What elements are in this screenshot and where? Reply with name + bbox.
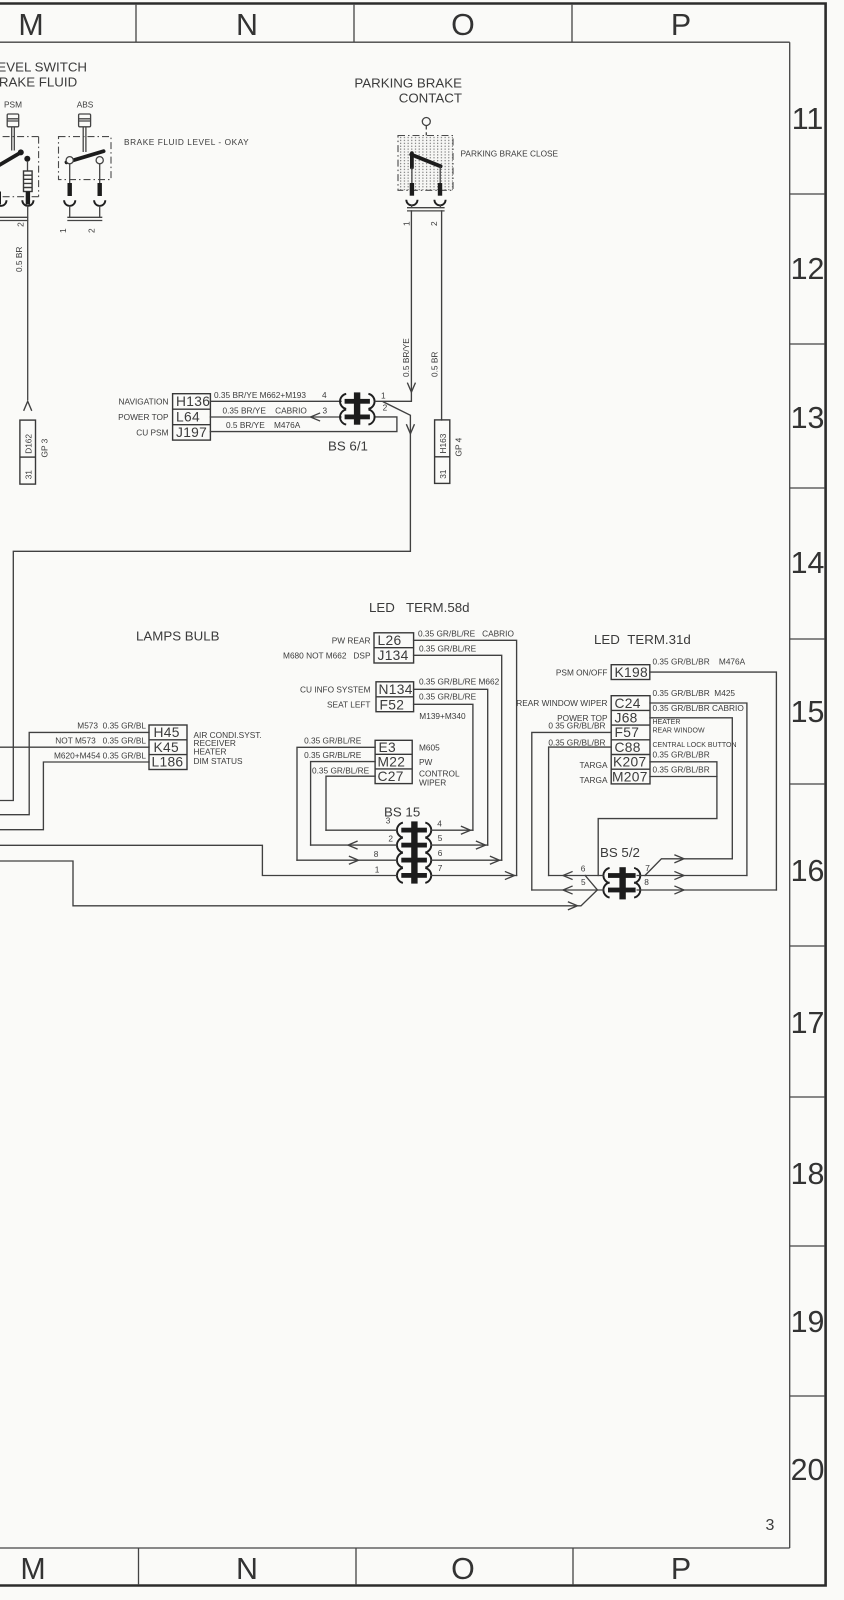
svg-text:K45: K45 (154, 740, 179, 755)
svg-text:D162: D162 (23, 434, 33, 454)
svg-text:BRAKE FLUID LEVEL - OKAY: BRAKE FLUID LEVEL - OKAY (124, 137, 249, 147)
svg-text:18: 18 (791, 1157, 825, 1191)
connector housing bar PSM (0, 206, 28, 401)
svg-text:11: 11 (792, 102, 824, 136)
svg-text:3: 3 (766, 1517, 775, 1534)
switch lever ABS (67, 151, 104, 162)
svg-text:PARKING BRAKE CLOSE: PARKING BRAKE CLOSE (461, 149, 559, 159)
wire H45 exits left (0, 732, 149, 814)
svg-text:1: 1 (375, 864, 380, 874)
svg-text:7: 7 (438, 863, 443, 873)
svg-text:0.35 GR/BL/RE: 0.35 GR/BL/RE (304, 750, 362, 760)
svg-text:0.35 BR/YE CABRIO: 0.35 BR/YE CABRIO (223, 405, 308, 415)
pin2 wire (arrow out to M22) (311, 844, 397, 846)
svg-text:31: 31 (438, 469, 448, 479)
svg-text:14: 14 (791, 546, 825, 580)
svg-text:3: 3 (386, 815, 391, 825)
wire M22 to BS15 pin2 (311, 762, 376, 846)
svg-text:REAR WINDOW: REAR WINDOW (653, 728, 706, 735)
svg-text:31: 31 (23, 470, 33, 480)
svg-text:WIPER: WIPER (419, 778, 446, 788)
svg-text:0.35 BR/YE M662+M193: 0.35 BR/YE M662+M193 (214, 390, 306, 400)
BS15 left wires: pin3 (326, 829, 397, 831)
svg-text:0.35 GR/BL/RE: 0.35 GR/BL/RE (304, 736, 362, 746)
connector housing bar ABS (67, 206, 102, 221)
svg-text:M207: M207 (612, 769, 648, 784)
svg-text:H163: H163 (438, 433, 448, 453)
wire K207 loop to BS5/2 (598, 762, 717, 876)
wire E3 to BS15 pin8 (297, 747, 375, 860)
svg-text:N: N (236, 8, 258, 42)
wire K45 exits left (0, 746, 149, 748)
svg-text:CENTRAL LOCK BUTTON: CENTRAL LOCK BUTTON (653, 742, 737, 749)
svg-text:DIM STATUS: DIM STATUS (194, 756, 243, 766)
svg-text:20: 20 (791, 1453, 825, 1487)
svg-text:0.35 GR/BL/RE M662: 0.35 GR/BL/RE M662 (419, 677, 500, 687)
svg-text:POWER TOP: POWER TOP (118, 412, 169, 422)
parking brake contact: actuator circle (422, 118, 430, 126)
svg-text:BRAKE FLUID: BRAKE FLUID (0, 75, 77, 90)
svg-text:F52: F52 (380, 697, 405, 712)
branch diagonal pin6-to-pin5 junction (585, 876, 597, 890)
header band (0, 5, 790, 42)
svg-text:O: O (451, 1552, 475, 1586)
svg-text:LAMPS BULB: LAMPS BULB (136, 629, 220, 644)
svg-text:LED TERM.58d: LED TERM.58d (369, 600, 470, 615)
BS15 right wires: pin4 (432, 829, 473, 831)
connector box H136 / L64 / J197 (173, 394, 211, 440)
svg-text:K207: K207 (613, 755, 646, 770)
svg-text:N134: N134 (379, 682, 413, 697)
svg-text:L64: L64 (176, 409, 200, 424)
svg-text:16: 16 (791, 854, 825, 888)
svg-text:6: 6 (581, 863, 586, 873)
svg-text:2: 2 (87, 228, 97, 233)
wire L26 to BS15 pin7 (414, 640, 517, 875)
svg-text:E3: E3 (379, 740, 397, 755)
svg-text:CU INFO SYSTEM: CU INFO SYSTEM (300, 684, 371, 694)
connector box L26 / J134 (374, 633, 414, 663)
wire L186 exits left (0, 762, 149, 830)
connector housing bar parking brake (407, 205, 445, 211)
connector box K198 (611, 665, 650, 680)
wire H136 to BS6/1 pin4 (210, 400, 341, 402)
svg-text:6: 6 (438, 848, 443, 858)
pin terminal PSM pin2 (26, 192, 30, 205)
switch S (brake fluid level, PSM side) dashed enclosure (0, 137, 39, 197)
svg-text:0.35 GR/BL/RE CABRIO: 0.35 GR/BL/RE CABRIO (418, 629, 514, 639)
BS5/2 pin7 wire straight to C24 riser (637, 875, 747, 877)
pin1 wire from page-left node (0, 845, 397, 875)
svg-text:F57: F57 (615, 725, 640, 740)
svg-text:GP 3: GP 3 (40, 438, 50, 457)
arrow up into ground D162 (24, 401, 32, 410)
svg-text:N: N (236, 1552, 258, 1586)
BS5/2 pin8 wire to K198 riser (637, 889, 776, 891)
connector box C24/J68/F57/C88/K207/M207 (611, 696, 650, 784)
wire C27 to BS15 pin3 (326, 776, 375, 830)
svg-text:H45: H45 (154, 725, 180, 740)
svg-text:H136: H136 (176, 394, 210, 409)
svg-text:8: 8 (644, 877, 649, 887)
svg-text:PW REAR: PW REAR (332, 635, 371, 645)
ground G (31 H163 GP4) (435, 420, 450, 484)
svg-text:TARGA: TARGA (580, 760, 608, 770)
BS5/2 pin5 wire (arrow out to F57 riser) (532, 889, 604, 891)
svg-text:SEAT LEFT: SEAT LEFT (327, 699, 371, 709)
svg-text:13: 13 (791, 401, 825, 435)
wire: parking brake pin2 down to ground H163 (441, 211, 443, 420)
connector box H45 / K45 / L186 (149, 725, 187, 770)
svg-text:PSM ON/OFF: PSM ON/OFF (556, 667, 608, 677)
svg-text:CU PSM: CU PSM (136, 427, 168, 437)
svg-text:0.35 GR/BL/BR CABRIO: 0.35 GR/BL/BR CABRIO (653, 703, 745, 713)
svg-text:0.35 GR/BL/BR M476A: 0.35 GR/BL/BR M476A (653, 657, 746, 667)
wire J68 to BS5/2 pin7 upper branch (650, 718, 732, 859)
pin5 (432, 844, 488, 846)
svg-text:PW: PW (419, 757, 433, 767)
svg-text:M22: M22 (378, 755, 406, 770)
BS5/2 pin7 upper branch to J68 riser (645, 859, 732, 876)
svg-text:BS 6/1: BS 6/1 (328, 439, 368, 454)
svg-text:M: M (18, 8, 43, 42)
svg-text:K198: K198 (615, 665, 648, 680)
pin7 (432, 875, 517, 877)
switch S (brake fluid level, ABS side) dashed enclosure (59, 137, 112, 180)
svg-text:TARGA: TARGA (580, 775, 608, 785)
right number column (789, 42, 791, 1548)
svg-text:0.5 BR/YE: 0.5 BR/YE (401, 338, 411, 377)
svg-text:BS 5/2: BS 5/2 (600, 845, 640, 860)
svg-text:M: M (20, 1552, 45, 1586)
wire N134 to BS15 pin5 (414, 689, 488, 845)
svg-text:M680 NOT M662 DSP: M680 NOT M662 DSP (283, 650, 371, 660)
svg-text:12: 12 (791, 252, 825, 286)
BS5/2 pin6 wire (arrow out to C88 riser) (549, 875, 604, 877)
svg-text:0.35 GR/BL/BR: 0.35 GR/BL/BR (653, 765, 710, 775)
pin terminals parking brake 1,2 (410, 183, 414, 196)
svg-text:1: 1 (58, 228, 68, 233)
switch lever PSM (0, 153, 21, 167)
wire: parking brake pin1 down to BS 6/1 (410, 211, 412, 400)
BS6/1 pin1 wire to parking brake (375, 400, 411, 402)
svg-text:0.35 GR/BL/BR M425: 0.35 GR/BL/BR M425 (653, 688, 736, 698)
svg-text:1: 1 (401, 221, 411, 226)
svg-text:M573 0.35 GR/BL: M573 0.35 GR/BL (77, 721, 146, 731)
svg-text:0.5 BR/YE M476A: 0.5 BR/YE M476A (226, 420, 301, 430)
svg-text:5: 5 (581, 877, 586, 887)
svg-text:P: P (671, 8, 691, 42)
svg-text:8: 8 (374, 849, 379, 859)
svg-text:C27: C27 (378, 769, 404, 784)
svg-text:17: 17 (791, 1006, 825, 1040)
pin6 (432, 859, 502, 861)
svg-text:P: P (671, 1552, 691, 1586)
wire J134 to BS15 pin6 (414, 655, 502, 860)
splice BS 6/1 (354, 392, 360, 424)
svg-text:O: O (451, 8, 475, 42)
wire K198 to BS5/2 pin8 (650, 672, 777, 890)
svg-text:0.35 GR/BL/RE: 0.35 GR/BL/RE (419, 644, 477, 654)
svg-text:0.35 GR/BL/RE: 0.35 GR/BL/RE (419, 692, 477, 702)
svg-text:15: 15 (791, 695, 825, 729)
wire branch from pin1 down-left across page (node to left sheet) (0, 402, 410, 801)
pin8 wire (arrow into splice) (297, 859, 397, 861)
svg-text:M139+M340: M139+M340 (419, 711, 466, 721)
svg-text:2: 2 (16, 222, 26, 227)
svg-text:L186: L186 (152, 755, 184, 770)
wire F52 to BS15 pin4 (414, 704, 473, 830)
svg-text:0 35 GR/BL/BR: 0 35 GR/BL/BR (548, 720, 605, 730)
svg-text:0.35 GR/BL/BR: 0.35 GR/BL/BR (653, 750, 710, 760)
svg-text:J197: J197 (176, 425, 207, 440)
connector box N134 / F52 (376, 682, 414, 712)
wire from page-left node into BS5/2 (arrow in) (0, 861, 597, 906)
svg-text:3: 3 (323, 405, 328, 415)
svg-text:LED TERM.31d: LED TERM.31d (594, 632, 691, 647)
svg-text:NAVIGATION: NAVIGATION (119, 396, 169, 406)
svg-text:M605: M605 (419, 742, 440, 752)
svg-text:LEVEL SWITCH: LEVEL SWITCH (0, 60, 87, 75)
svg-text:1: 1 (381, 390, 386, 400)
svg-text:REAR WINDOW WIPER: REAR WINDOW WIPER (516, 698, 607, 708)
svg-text:C24: C24 (615, 696, 641, 711)
resistor element in PSM switch (27, 161, 29, 171)
parking brake lever (410, 153, 414, 167)
pin terminal PSM pin1 (clipped at page edge) (0, 192, 1, 205)
svg-text:J68: J68 (615, 711, 638, 726)
svg-text:0.5 BR: 0.5 BR (430, 352, 440, 377)
wire C24 to BS5/2 pin7 straight branch (650, 703, 747, 876)
svg-text:NOT M573 0.35 GR/BL: NOT M573 0.35 GR/BL (55, 735, 146, 745)
svg-text:M620+M454 0.35 GR/BL: M620+M454 0.35 GR/BL (54, 750, 146, 760)
svg-text:GP 4: GP 4 (454, 437, 464, 456)
svg-text:PARKING BRAKE: PARKING BRAKE (354, 76, 462, 91)
svg-text:19: 19 (791, 1305, 825, 1339)
svg-text:PSM: PSM (4, 100, 22, 110)
svg-text:J134: J134 (378, 648, 409, 663)
parking brake switch body (stippled) (398, 136, 453, 191)
svg-text:2: 2 (429, 221, 439, 226)
svg-text:5: 5 (438, 833, 443, 843)
svg-text:0.35 GR/BL/BR: 0.35 GR/BL/BR (548, 738, 605, 748)
pin terminals ABS 1,2 (68, 183, 72, 196)
svg-text:L26: L26 (378, 633, 402, 648)
svg-text:2: 2 (388, 834, 393, 844)
svg-text:C88: C88 (615, 740, 641, 755)
wire C88 to BS5/2 pin6 (549, 747, 612, 875)
svg-text:4: 4 (437, 818, 442, 828)
svg-text:0.35 GR/BL/RE: 0.35 GR/BL/RE (312, 765, 370, 775)
footer band (0, 1548, 790, 1585)
svg-text:0.5 BR: 0.5 BR (14, 247, 24, 272)
svg-text:ABS: ABS (77, 100, 94, 110)
svg-text:CONTACT: CONTACT (399, 91, 462, 106)
svg-text:4: 4 (322, 390, 327, 400)
wire F57 to BS5/2 pin5 (532, 732, 611, 890)
connector box E3 / M22 / C27 (375, 740, 412, 783)
svg-text:HEATER: HEATER (653, 719, 681, 726)
wire L64 to BS6/1 pin3 (arrow left) (210, 416, 341, 418)
wire J197 loop to BS6/1 pin2 (210, 417, 397, 432)
wire M207 joins K207 loop (650, 776, 717, 778)
ground G (31 D162 GP3) (20, 420, 36, 484)
